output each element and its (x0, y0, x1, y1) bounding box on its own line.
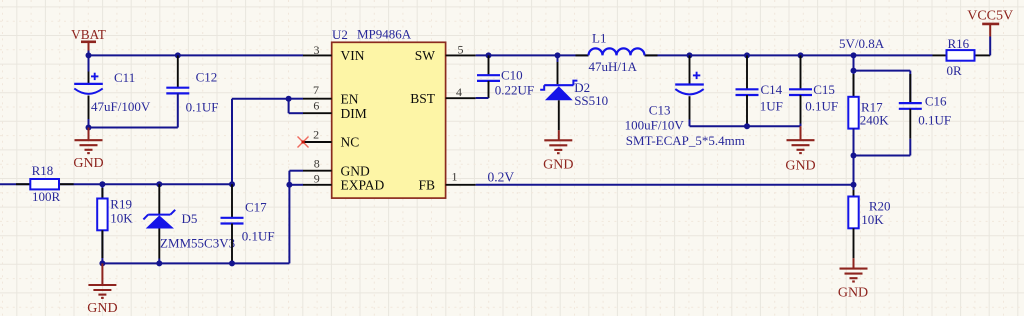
svg-text:C17: C17 (245, 199, 267, 214)
svg-text:1UF: 1UF (760, 99, 783, 114)
svg-text:GND: GND (838, 285, 868, 300)
svg-text:0.22UF: 0.22UF (495, 83, 534, 98)
svg-text:100uF/10V: 100uF/10V (625, 117, 685, 132)
svg-text:3: 3 (314, 43, 320, 57)
svg-text:R19: R19 (110, 196, 132, 211)
svg-text:0.1UF: 0.1UF (805, 99, 838, 114)
svg-text:0.2V: 0.2V (488, 169, 515, 184)
svg-text:R18: R18 (32, 163, 54, 178)
svg-text:SMT-ECAP_5*5.4mm: SMT-ECAP_5*5.4mm (626, 133, 745, 148)
svg-text:D5: D5 (182, 211, 198, 226)
svg-text:L1: L1 (592, 30, 606, 45)
svg-text:DIM: DIM (341, 106, 367, 121)
svg-text:9: 9 (314, 171, 320, 185)
svg-text:MP9486A: MP9486A (357, 27, 412, 42)
svg-text:C10: C10 (501, 67, 523, 82)
svg-text:BST: BST (410, 91, 436, 106)
svg-text:100R: 100R (32, 189, 61, 204)
svg-text:0.1UF: 0.1UF (918, 113, 951, 128)
svg-text:EN: EN (341, 91, 359, 106)
svg-text:GND: GND (73, 156, 103, 171)
svg-text:0.1UF: 0.1UF (242, 228, 275, 243)
svg-text:U2: U2 (332, 27, 348, 42)
svg-text:GND: GND (543, 158, 573, 173)
svg-text:R16: R16 (948, 36, 970, 51)
svg-text:C14: C14 (761, 82, 783, 97)
svg-text:47uF/100V: 47uF/100V (91, 99, 151, 114)
svg-text:6: 6 (313, 99, 319, 113)
svg-text:VBAT: VBAT (71, 27, 106, 42)
svg-text:VIN: VIN (341, 48, 365, 63)
svg-text:2: 2 (313, 128, 319, 142)
svg-text:0R: 0R (947, 63, 963, 78)
svg-text:SS510: SS510 (574, 93, 608, 108)
svg-text:5: 5 (458, 43, 464, 57)
svg-text:FB: FB (418, 177, 435, 192)
svg-text:C15: C15 (813, 82, 835, 97)
svg-text:47uH/1A: 47uH/1A (589, 59, 638, 74)
svg-text:240K: 240K (860, 113, 890, 128)
svg-text:5V/0.8A: 5V/0.8A (839, 36, 885, 51)
svg-text:GND: GND (341, 163, 370, 178)
svg-text:C12: C12 (196, 70, 218, 85)
svg-text:C11: C11 (114, 70, 135, 85)
svg-text:7: 7 (313, 83, 319, 97)
svg-text:GND: GND (785, 159, 815, 174)
svg-text:SW: SW (415, 48, 436, 63)
svg-text:ZMM55C3V3: ZMM55C3V3 (160, 236, 235, 251)
svg-text:C16: C16 (925, 93, 947, 108)
svg-text:10K: 10K (861, 212, 884, 227)
svg-text:0.1UF: 0.1UF (186, 100, 219, 115)
svg-text:GND: GND (87, 301, 117, 316)
svg-text:10K: 10K (110, 210, 133, 225)
svg-text:VCC5V: VCC5V (967, 9, 1013, 24)
svg-text:1: 1 (452, 170, 458, 184)
svg-text:C13: C13 (649, 103, 671, 118)
svg-text:4: 4 (456, 85, 462, 99)
svg-text:NC: NC (341, 135, 360, 150)
svg-text:8: 8 (314, 156, 320, 170)
svg-text:EXPAD: EXPAD (341, 177, 385, 192)
